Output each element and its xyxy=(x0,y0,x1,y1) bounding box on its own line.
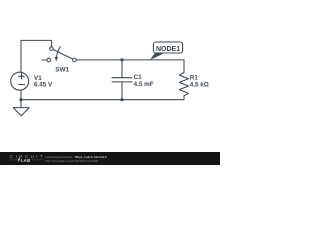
svg-text:LAB: LAB xyxy=(21,158,30,163)
svg-text:6.45 V: 6.45 V xyxy=(34,82,53,89)
ground xyxy=(13,100,29,116)
watermark bar xyxy=(0,152,220,165)
svg-text:SW1: SW1 xyxy=(55,67,69,74)
junction dot capacitor bottom xyxy=(120,98,123,101)
wire left vertical V1 top xyxy=(20,40,22,72)
wire right vertical bottom xyxy=(183,96,185,100)
svg-text:4.5 kΩ: 4.5 kΩ xyxy=(190,82,209,89)
capacitor C1 xyxy=(112,60,132,100)
wire top-left horizontal from V1 top to switch corner xyxy=(21,40,52,46)
CircuitLab logo xyxy=(0,152,44,165)
node NODE1 callout xyxy=(150,42,183,60)
wire switch to right corner xyxy=(76,59,184,61)
svg-text:R1: R1 xyxy=(190,75,199,82)
junction dot capacitor top xyxy=(120,58,123,61)
wire V1 bottom to ground junction xyxy=(20,90,22,100)
watermark text xyxy=(45,155,107,163)
svg-text:4.5 mF: 4.5 mF xyxy=(134,81,154,88)
junction dot bottom-left xyxy=(19,98,22,101)
wire right vertical top xyxy=(183,60,185,73)
voltage source V1 xyxy=(11,72,29,90)
resistor R1 xyxy=(179,73,188,96)
switch SW1 xyxy=(42,47,76,62)
svg-text:NODE1: NODE1 xyxy=(156,46,180,53)
wire bottom horizontal xyxy=(21,99,184,101)
